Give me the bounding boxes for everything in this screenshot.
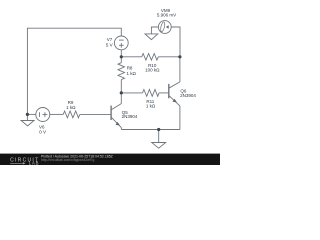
svg-text:1 kΩ: 1 kΩ bbox=[146, 104, 156, 109]
Q6 emitter vertical wire bbox=[179, 106, 181, 130]
footer bar bbox=[0, 154, 220, 165]
wire: R8 bottom to Q5 collector bbox=[120, 80, 122, 104]
wire: node down to R8 top bbox=[120, 57, 122, 63]
V7 plus sign bbox=[119, 44, 124, 46]
svg-text:100 kΩ: 100 kΩ bbox=[145, 68, 160, 73]
node left ground bbox=[26, 113, 29, 116]
node below V7 bbox=[120, 55, 123, 58]
svg-text:0 V: 0 V bbox=[39, 130, 46, 135]
resistor R11 bbox=[143, 90, 160, 97]
resistor R8 (vertical) bbox=[118, 63, 125, 80]
ground (bottom) bbox=[152, 143, 166, 149]
svg-text:5 V: 5 V bbox=[106, 43, 113, 48]
node Q5 collector / R11 bbox=[120, 91, 123, 94]
svg-text:2N3904: 2N3904 bbox=[180, 93, 196, 98]
Q5 collector diagonal bbox=[111, 104, 121, 110]
transistor Q6 base bar bbox=[168, 84, 170, 98]
transistor Q5 base bar bbox=[110, 106, 112, 120]
svg-text:V7: V7 bbox=[107, 37, 113, 42]
Q6 emitter diagonal bbox=[169, 95, 180, 106]
wire: R11 right to Q6 base bbox=[159, 92, 169, 94]
VM9 meter lens bbox=[160, 22, 166, 33]
ground stub (bottom) bbox=[158, 130, 160, 143]
wire: Q5 emitter to bottom rail bbox=[120, 128, 122, 130]
wire: R9 to Q5 base bbox=[80, 113, 111, 115]
wire: collector node to R11 left bbox=[121, 92, 142, 94]
wire: V7 bottom stub bbox=[120, 50, 122, 57]
Q6 collector vertical wire bbox=[179, 57, 181, 82]
svg-text:1 kΩ: 1 kΩ bbox=[127, 71, 137, 76]
wire: node to R10 left bbox=[121, 56, 141, 58]
wire: VM9 right arm bbox=[171, 27, 180, 57]
ground (left) bbox=[21, 121, 34, 126]
svg-text:R8: R8 bbox=[127, 66, 133, 71]
voltage source V7 bbox=[114, 36, 128, 50]
node bottom ground bbox=[157, 128, 160, 131]
node R10/VM9/Q6 collector bbox=[178, 55, 181, 58]
ground stub (left) bbox=[26, 114, 28, 120]
Q5 emitter arrow bbox=[116, 122, 120, 126]
wire: left rail to V6 bbox=[27, 113, 35, 115]
V7 minus sign bbox=[119, 39, 124, 41]
VM9 needle arrow bbox=[166, 25, 169, 28]
wire: V6 to R9 bbox=[50, 113, 63, 115]
ground (VM9) bbox=[145, 34, 158, 40]
voltmeter VM9 bbox=[158, 21, 171, 34]
wire: R10 right to node bbox=[158, 56, 180, 58]
resistor R9 bbox=[63, 111, 80, 118]
Q5 emitter diagonal bbox=[111, 117, 121, 128]
svg-text:http://circuitlab.com/c/bgcwx4: http://circuitlab.com/c/bgcwx42wf7g bbox=[41, 158, 94, 162]
V6 plus sign bbox=[43, 114, 48, 116]
wire: left vertical + top horizontal + V7 top stub bbox=[27, 28, 121, 114]
Q6 collector diagonal bbox=[169, 82, 180, 88]
Q6 emitter arrow bbox=[173, 99, 177, 103]
CircuitLab logo bbox=[10, 157, 39, 165]
junction dots bbox=[26, 55, 182, 131]
wire: bottom rail bbox=[121, 129, 180, 131]
svg-text:5.906 mV: 5.906 mV bbox=[157, 12, 176, 17]
wire: VM9 left arm to ground bbox=[151, 27, 158, 34]
svg-text:1 kΩ: 1 kΩ bbox=[66, 105, 76, 110]
voltage source V6 bbox=[36, 108, 50, 122]
resistor R10 bbox=[142, 54, 159, 61]
svg-text:R9: R9 bbox=[68, 100, 74, 105]
V6 minus sign (rotated) bbox=[39, 112, 41, 117]
svg-text:LAB: LAB bbox=[29, 161, 39, 165]
svg-text:2N3904: 2N3904 bbox=[122, 114, 138, 119]
